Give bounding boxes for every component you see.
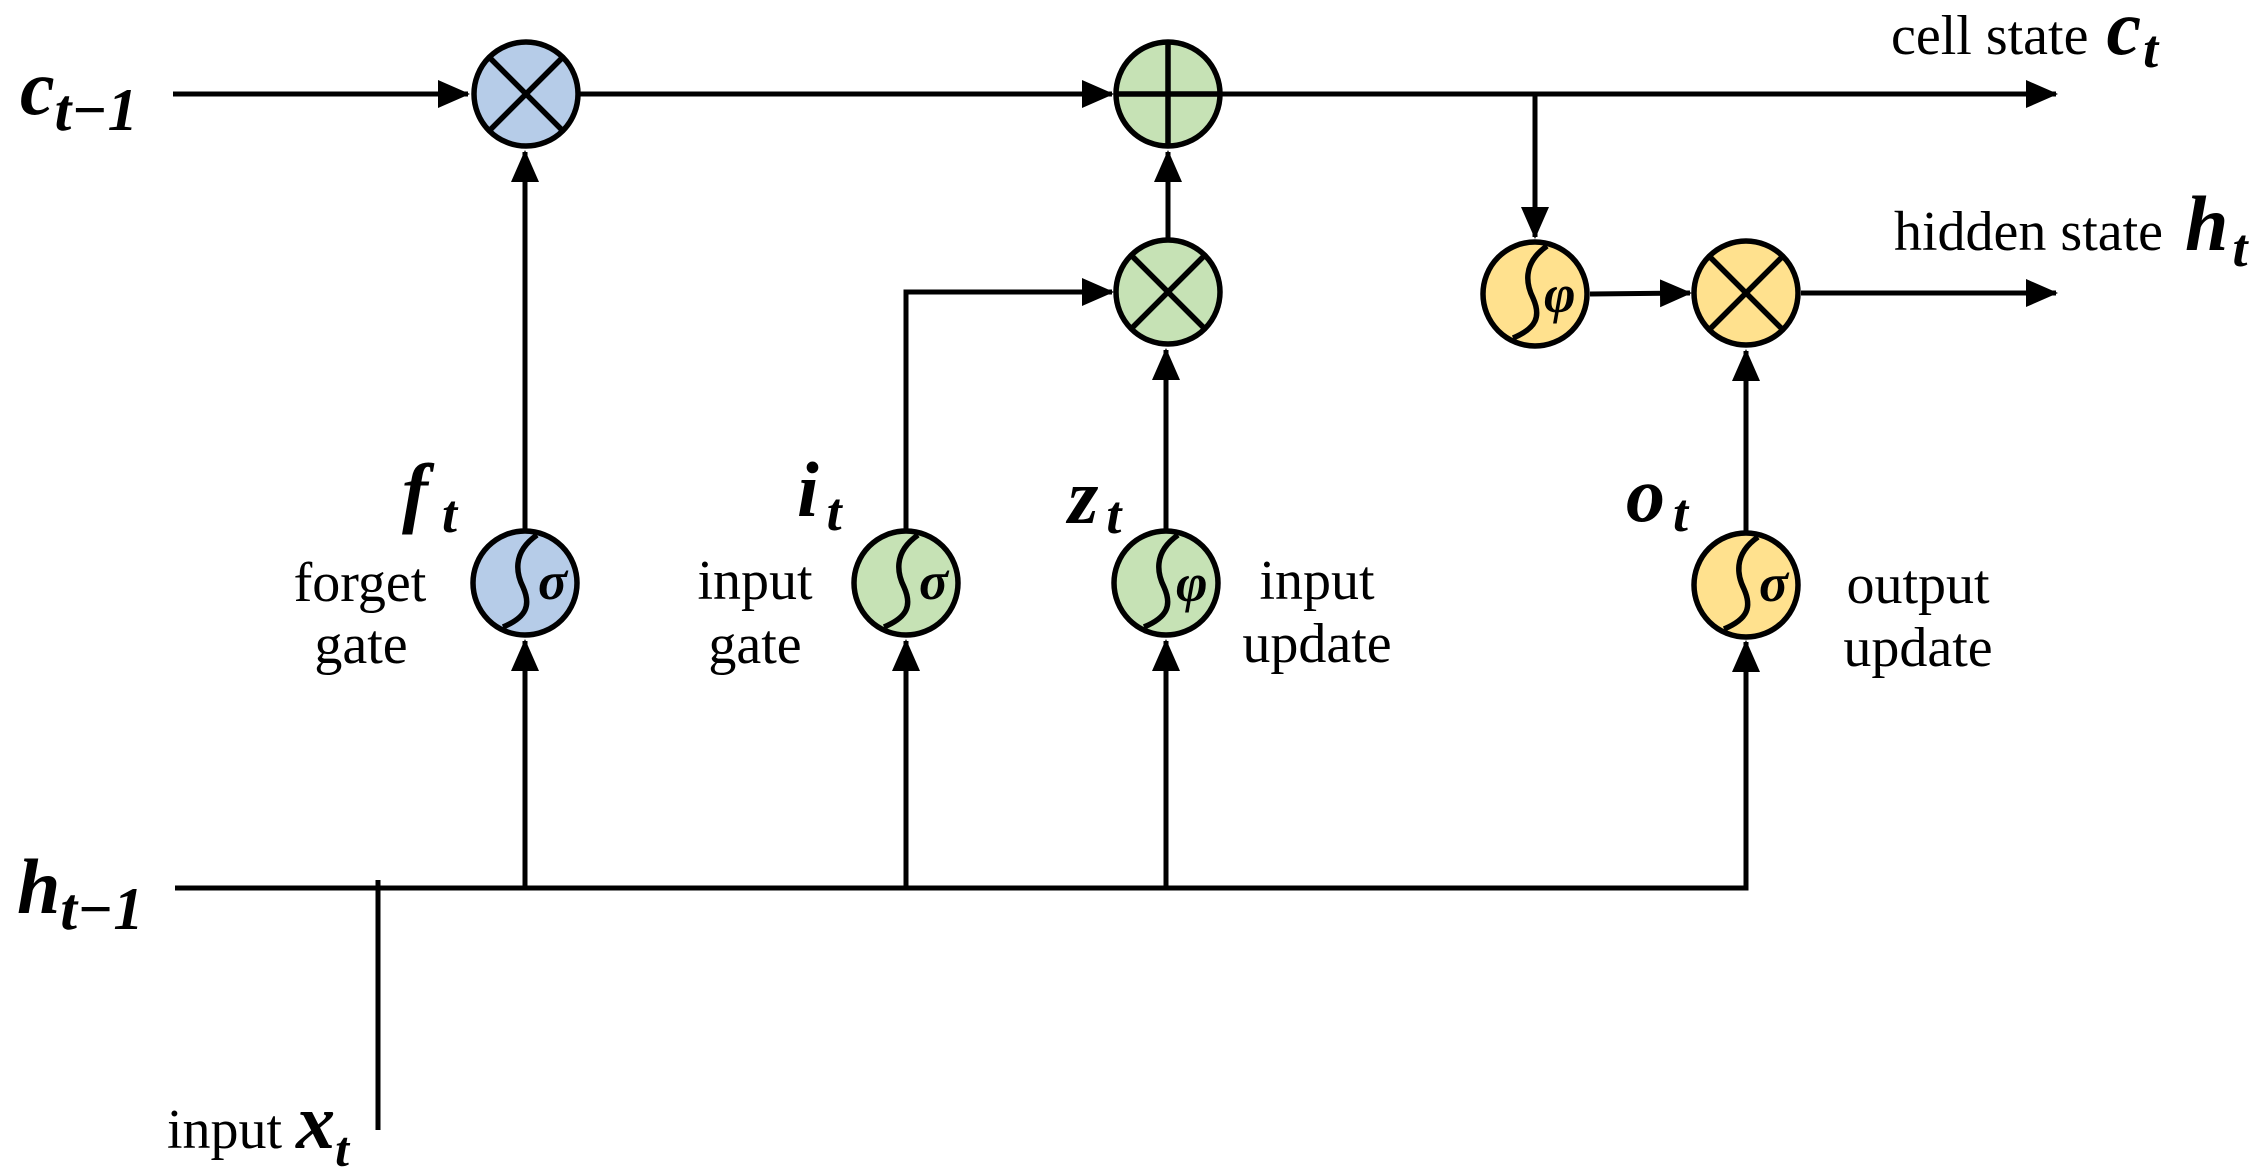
svg-text:φ: φ xyxy=(1544,264,1576,324)
svg-text:update: update xyxy=(1242,613,1391,675)
svg-text:σ: σ xyxy=(919,551,950,611)
svg-text:ot: ot xyxy=(1626,451,1690,543)
svg-text:it: it xyxy=(797,446,844,542)
svg-text:input xt: input xt xyxy=(167,1078,351,1176)
svg-text:zt: zt xyxy=(1065,453,1123,545)
svg-text:forget: forget xyxy=(294,552,427,614)
svg-text:update: update xyxy=(1843,617,1992,679)
svg-text:σ: σ xyxy=(538,551,569,611)
svg-text:input: input xyxy=(697,550,813,612)
svg-text:gate: gate xyxy=(314,614,407,676)
svg-text:input: input xyxy=(1259,550,1375,612)
svg-text:hidden state ht: hidden state ht xyxy=(1894,180,2249,278)
svg-text:output: output xyxy=(1846,554,1990,616)
svg-text:σ: σ xyxy=(1759,553,1790,613)
svg-text:ct−1: ct−1 xyxy=(20,44,138,143)
svg-text:ht−1: ht−1 xyxy=(17,843,143,942)
svg-text:gate: gate xyxy=(708,614,801,676)
svg-text:ft: ft xyxy=(402,448,459,544)
svg-text:cell state ct: cell state ct xyxy=(1891,0,2160,79)
svg-text:φ: φ xyxy=(1176,553,1208,613)
